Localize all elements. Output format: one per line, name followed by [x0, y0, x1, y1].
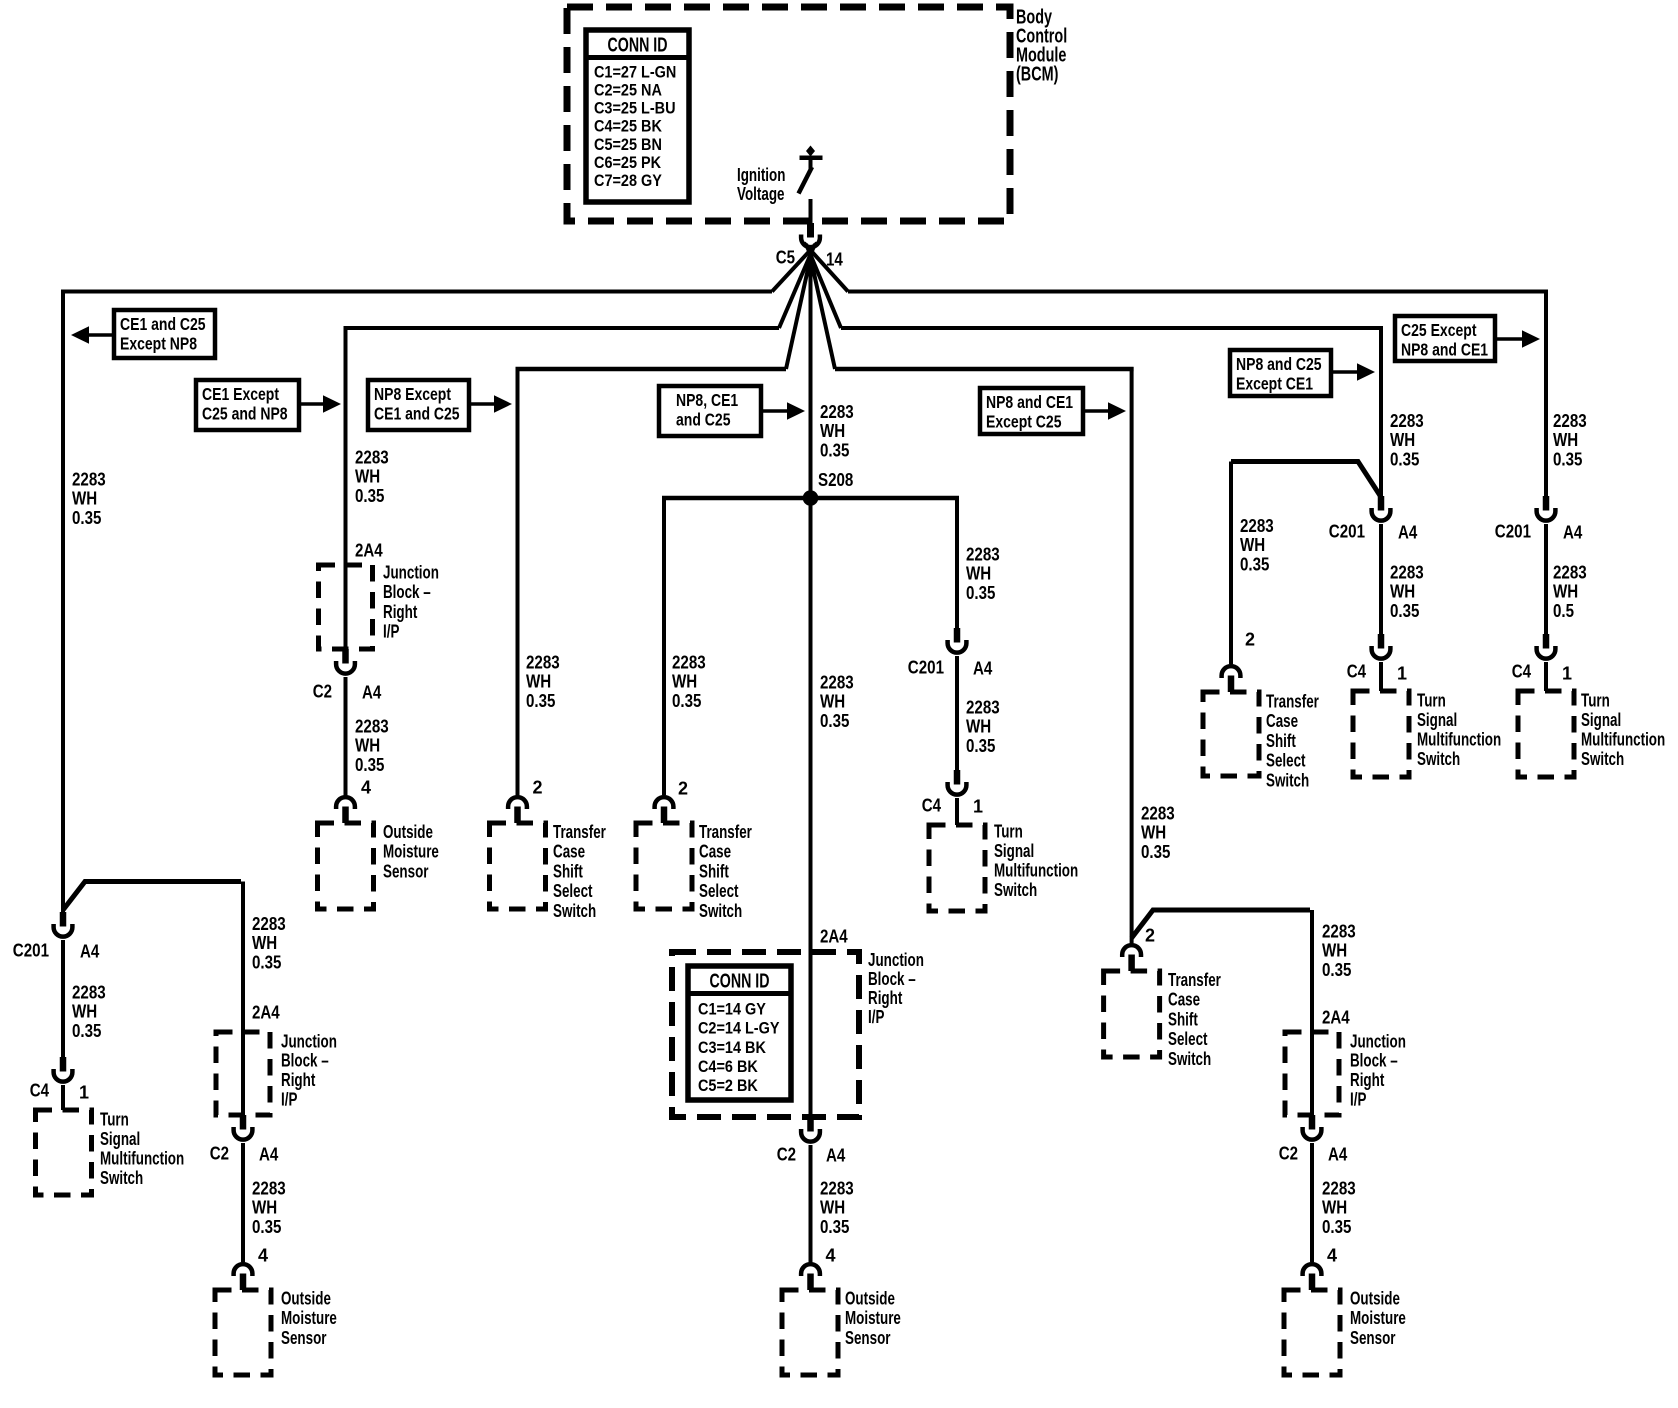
- svg-text:0.5: 0.5: [1553, 601, 1574, 621]
- svg-text:Transfer: Transfer: [553, 822, 606, 842]
- svg-text:WH: WH: [72, 1002, 97, 1022]
- svg-text:2283: 2283: [1322, 1178, 1356, 1198]
- svg-text:Turn: Turn: [994, 821, 1023, 841]
- wire ignition switch output: [809, 199, 813, 223]
- svg-text:C5: C5: [776, 247, 795, 267]
- wire rail 3 right: [835, 367, 1134, 372]
- svg-text:C7=28 GY: C7=28 GY: [594, 171, 662, 190]
- arrow for flag CE1 and C25 Except NP8: [85, 333, 114, 337]
- svg-text:WH: WH: [1240, 535, 1265, 555]
- svg-text:A4: A4: [80, 941, 99, 961]
- flag CE1 and C25 Except NP8: [114, 310, 215, 358]
- svg-text:CONN ID: CONN ID: [710, 971, 770, 993]
- svg-text:NP8 and CE1: NP8 and CE1: [1401, 340, 1488, 360]
- wire rail 1 left: [61, 290, 772, 294]
- svg-text:Multifunction: Multifunction: [994, 861, 1078, 881]
- wire branch H C201 to C4: [1544, 524, 1548, 634]
- svg-text:Block –: Block –: [281, 1051, 329, 1071]
- svg-text:C4=6 BK: C4=6 BK: [698, 1057, 758, 1076]
- svg-text:C2: C2: [313, 681, 332, 701]
- svg-text:Moisture: Moisture: [281, 1308, 337, 1328]
- svg-text:Turn: Turn: [1581, 690, 1610, 710]
- svg-text:Multifunction: Multifunction: [1581, 730, 1665, 750]
- svg-text:and C25: and C25: [676, 410, 731, 430]
- svg-text:I/P: I/P: [281, 1090, 297, 1110]
- connector pin 4 at outside moisture sensor (second left): [234, 1264, 253, 1276]
- svg-text:Right: Right: [383, 602, 417, 622]
- svg-text:0.35: 0.35: [252, 1217, 281, 1237]
- svg-text:2283: 2283: [252, 914, 286, 934]
- svg-text:2A4: 2A4: [355, 540, 383, 560]
- transfer case shift select switch dashed box (branch F): [1104, 971, 1160, 1057]
- svg-text:4: 4: [258, 1245, 268, 1265]
- svg-text:C1=27 L-GN: C1=27 L-GN: [594, 62, 676, 81]
- arrow for flag CE1 Except C25 and NP8: [299, 402, 327, 406]
- svg-text:C2: C2: [777, 1144, 796, 1164]
- svg-text:Signal: Signal: [1581, 710, 1621, 730]
- CONN ID table (junction block): [688, 966, 791, 1100]
- svg-text:C4: C4: [1512, 661, 1531, 681]
- svg-text:0.35: 0.35: [820, 1217, 849, 1237]
- svg-text:I/P: I/P: [868, 1007, 884, 1027]
- wire center below C2: [809, 1145, 813, 1262]
- svg-text:2: 2: [678, 778, 688, 798]
- wire branch H C4 to switch: [1544, 662, 1548, 691]
- ignition switch: [800, 156, 823, 161]
- wire second-left column down: [241, 882, 245, 1116]
- svg-text:Shift: Shift: [553, 861, 583, 881]
- junction block - right I/P dashed box (branch B): [319, 565, 373, 649]
- flag C25 Except NP8 and CE1: [1395, 316, 1495, 361]
- svg-text:C2=14 L-GY: C2=14 L-GY: [698, 1019, 780, 1038]
- wire branch F to right column: [1132, 910, 1310, 938]
- svg-text:Right: Right: [281, 1070, 315, 1090]
- svg-text:0.35: 0.35: [1390, 450, 1419, 470]
- svg-text:Switch: Switch: [100, 1168, 143, 1188]
- svg-text:Case: Case: [1168, 990, 1200, 1010]
- svg-text:Multifunction: Multifunction: [100, 1149, 184, 1169]
- connector C4 pin 1 (mid right): [954, 770, 961, 785]
- connector C4 pin 1 (far left): [60, 1057, 67, 1072]
- svg-text:Junction: Junction: [868, 950, 924, 970]
- connector pin 4 at outside moisture sensor (branch B): [336, 797, 355, 809]
- svg-text:1: 1: [1562, 663, 1572, 683]
- arrow for flag NP8, CE1 and C25: [761, 409, 791, 413]
- svg-text:1: 1: [973, 796, 983, 816]
- outside moisture sensor dashed box (right): [1284, 1290, 1340, 1375]
- svg-text:WH: WH: [72, 489, 97, 509]
- svg-text:NP8 Except: NP8 Except: [374, 384, 451, 404]
- outside moisture sensor dashed box (second left): [215, 1290, 271, 1375]
- svg-text:WH: WH: [1390, 582, 1415, 602]
- svg-text:Switch: Switch: [699, 901, 742, 921]
- svg-text:2283: 2283: [820, 1178, 854, 1198]
- svg-text:0.35: 0.35: [526, 691, 555, 711]
- turn signal multifunction switch dashed box (far left): [36, 1110, 92, 1195]
- svg-text:Except CE1: Except CE1: [1236, 374, 1313, 394]
- svg-text:Select: Select: [1266, 751, 1306, 771]
- svg-text:14: 14: [826, 249, 843, 269]
- wire second-left C2 to sensor: [241, 1143, 245, 1262]
- svg-text:Right: Right: [868, 988, 902, 1008]
- svg-text:0.35: 0.35: [1390, 601, 1419, 621]
- flag NP8, CE1 and C25: [659, 386, 761, 436]
- connector pin 2 at transfer case switch (branch F): [1122, 945, 1141, 957]
- fan-out wires from C5 to rails: [772, 243, 817, 292]
- flag NP8 Except CE1 and C25: [368, 380, 469, 430]
- svg-text:Shift: Shift: [1266, 731, 1296, 751]
- svg-text:Sensor: Sensor: [383, 861, 429, 881]
- svg-text:C1=14 GY: C1=14 GY: [698, 1000, 766, 1019]
- BCM dashed outline box: [567, 7, 1010, 221]
- svg-text:Junction: Junction: [281, 1031, 337, 1051]
- svg-text:C25 Except: C25 Except: [1401, 320, 1477, 340]
- svg-text:2283: 2283: [966, 544, 1000, 564]
- wire branch C from rail 3: [516, 367, 520, 795]
- svg-text:0.35: 0.35: [820, 711, 849, 731]
- svg-text:2: 2: [533, 777, 543, 797]
- svg-text:2283: 2283: [1390, 411, 1424, 431]
- svg-text:0.35: 0.35: [252, 953, 281, 973]
- svg-text:CE1 and C25: CE1 and C25: [374, 404, 460, 424]
- connector C5 pin 14 at BCM: [807, 223, 814, 238]
- svg-text:WH: WH: [820, 421, 845, 441]
- svg-text:C2=25 NA: C2=25 NA: [594, 81, 662, 100]
- connector pin 2 at transfer case switch (branch D): [655, 797, 674, 809]
- svg-text:C2: C2: [1279, 1143, 1298, 1163]
- svg-text:Sensor: Sensor: [1350, 1328, 1396, 1348]
- turn signal multifunction switch dashed box (mid right): [929, 825, 985, 911]
- svg-text:2283: 2283: [355, 716, 389, 736]
- connector C2 pin A4 (branch B): [342, 649, 349, 664]
- svg-text:2283: 2283: [672, 652, 706, 672]
- flag CE1 Except C25 and NP8: [196, 380, 299, 430]
- connector pin 4 at outside moisture sensor (center): [801, 1264, 820, 1276]
- svg-text:Shift: Shift: [699, 861, 729, 881]
- svg-text:C201: C201: [13, 940, 49, 960]
- svg-text:0.35: 0.35: [1141, 842, 1170, 862]
- svg-text:2283: 2283: [820, 672, 854, 692]
- svg-text:A4: A4: [362, 682, 381, 702]
- outside moisture sensor dashed box (branch B): [318, 823, 374, 909]
- svg-text:Signal: Signal: [1417, 710, 1457, 730]
- svg-text:Turn: Turn: [100, 1109, 129, 1129]
- svg-text:WH: WH: [672, 672, 697, 692]
- svg-text:C4: C4: [30, 1080, 49, 1100]
- svg-text:WH: WH: [526, 672, 551, 692]
- svg-text:WH: WH: [966, 717, 991, 737]
- svg-text:Outside: Outside: [281, 1288, 331, 1308]
- svg-text:WH: WH: [1141, 823, 1166, 843]
- svg-text:CE1 and C25: CE1 and C25: [120, 314, 206, 334]
- svg-text:Case: Case: [699, 842, 731, 862]
- arrow for flag NP8 and C25 Except CE1: [1331, 370, 1361, 374]
- svg-text:4: 4: [826, 1245, 836, 1265]
- wire mid right C201 to C4: [955, 656, 959, 770]
- arrow for flag NP8 Except CE1 and C25: [469, 402, 498, 406]
- connector pin 2 at transfer case switch (branch G2): [1222, 666, 1241, 678]
- svg-text:Transfer: Transfer: [1168, 970, 1221, 990]
- wire far-left C4 to switch: [61, 1085, 65, 1110]
- svg-text:Transfer: Transfer: [699, 822, 752, 842]
- svg-text:0.35: 0.35: [72, 1021, 101, 1041]
- svg-text:A4: A4: [826, 1145, 845, 1165]
- svg-text:2283: 2283: [1141, 803, 1175, 823]
- svg-text:WH: WH: [820, 692, 845, 712]
- arrow for flag C25 Except NP8 and CE1: [1495, 337, 1526, 341]
- svg-text:Select: Select: [1168, 1029, 1208, 1049]
- svg-text:Signal: Signal: [100, 1129, 140, 1149]
- wire mid right C4 to switch: [955, 798, 959, 825]
- flag NP8 and C25 Except CE1: [1230, 350, 1331, 396]
- svg-text:Outside: Outside: [383, 822, 433, 842]
- connector C2 pin A4 (right): [1309, 1115, 1316, 1130]
- svg-text:0.35: 0.35: [672, 691, 701, 711]
- svg-text:Switch: Switch: [1168, 1049, 1211, 1069]
- svg-text:Sensor: Sensor: [845, 1328, 891, 1348]
- svg-text:Junction: Junction: [1350, 1031, 1406, 1051]
- svg-text:Case: Case: [553, 842, 585, 862]
- svg-text:2283: 2283: [966, 697, 1000, 717]
- svg-text:C201: C201: [1329, 521, 1365, 541]
- connector pin 2 at transfer case switch (branch C): [508, 797, 527, 809]
- svg-text:2283: 2283: [820, 402, 854, 422]
- wire far-left branch from rail 1: [61, 290, 65, 913]
- wire right C2 to sensor: [1310, 1143, 1314, 1262]
- svg-text:0.35: 0.35: [1240, 555, 1269, 575]
- svg-text:0.35: 0.35: [966, 736, 995, 756]
- wire branch from S208 to C201 (mid right): [955, 496, 959, 628]
- svg-text:C2: C2: [210, 1143, 229, 1163]
- svg-text:2A4: 2A4: [1322, 1007, 1350, 1027]
- svg-text:C201: C201: [1495, 521, 1531, 541]
- svg-text:0.35: 0.35: [1322, 1217, 1351, 1237]
- svg-text:C6=25 PK: C6=25 PK: [594, 153, 662, 172]
- svg-text:0.35: 0.35: [1553, 450, 1582, 470]
- svg-text:Junction: Junction: [383, 562, 439, 582]
- connector C4 pin 1 (branch G): [1378, 634, 1385, 649]
- svg-text:NP8 and C25: NP8 and C25: [1236, 354, 1322, 374]
- wire branch F from rail 3: [1130, 367, 1134, 943]
- connector C2 pin A4 (second left): [240, 1115, 247, 1130]
- svg-text:0.35: 0.35: [1322, 960, 1351, 980]
- junction block - right I/P dashed box (center): [672, 952, 859, 1117]
- wire branch to junction block column: [63, 882, 241, 911]
- wire rail 1 right: [848, 290, 1548, 294]
- svg-text:Switch: Switch: [994, 880, 1037, 900]
- wire right junction block column down: [1310, 910, 1314, 1115]
- svg-text:1: 1: [79, 1082, 89, 1102]
- wire rail 3 left: [516, 367, 787, 372]
- svg-text:C201: C201: [908, 657, 944, 677]
- wire branch G2 horizontal: [1231, 462, 1381, 498]
- svg-text:2283: 2283: [1553, 562, 1587, 582]
- svg-text:WH: WH: [1322, 1198, 1347, 1218]
- svg-text:0.35: 0.35: [355, 755, 384, 775]
- svg-text:2283: 2283: [72, 982, 106, 1002]
- svg-text:Except NP8: Except NP8: [120, 334, 197, 354]
- wire branch G C4 to switch: [1379, 662, 1383, 691]
- svg-text:Voltage: Voltage: [737, 184, 785, 204]
- arrow for flag NP8 and CE1 Except C25: [1083, 409, 1112, 413]
- svg-text:I/P: I/P: [383, 622, 399, 642]
- svg-text:Moisture: Moisture: [845, 1308, 901, 1328]
- svg-text:1: 1: [1397, 663, 1407, 683]
- svg-text:2283: 2283: [1240, 516, 1274, 536]
- svg-text:Ignition: Ignition: [737, 165, 785, 185]
- svg-text:Select: Select: [553, 881, 593, 901]
- junction block - right I/P dashed box (right): [1285, 1032, 1339, 1115]
- svg-text:Block –: Block –: [1350, 1051, 1398, 1071]
- svg-text:C3=14 BK: C3=14 BK: [698, 1038, 767, 1057]
- svg-text:Turn: Turn: [1417, 690, 1446, 710]
- svg-text:A4: A4: [1398, 522, 1417, 542]
- svg-text:A4: A4: [973, 658, 992, 678]
- svg-text:A4: A4: [1563, 522, 1582, 542]
- svg-text:WH: WH: [355, 736, 380, 756]
- wire S208 branch left: [662, 496, 810, 501]
- svg-text:Moisture: Moisture: [383, 842, 439, 862]
- svg-text:4: 4: [1327, 1245, 1337, 1265]
- svg-text:Shift: Shift: [1168, 1009, 1198, 1029]
- svg-text:2: 2: [1245, 629, 1255, 649]
- svg-text:2283: 2283: [252, 1178, 286, 1198]
- svg-text:2283: 2283: [1553, 411, 1587, 431]
- svg-text:Switch: Switch: [1266, 771, 1309, 791]
- wire branch G C201 to C4: [1379, 524, 1383, 634]
- svg-text:0.35: 0.35: [72, 508, 101, 528]
- wire rail 2 right: [841, 326, 1383, 330]
- svg-text:Block –: Block –: [383, 582, 431, 602]
- transfer case shift select switch dashed box (branch D): [636, 823, 692, 909]
- wire branch G2 down to transfer case switch: [1229, 462, 1233, 665]
- svg-text:CE1 Except: CE1 Except: [202, 384, 279, 404]
- junction block - right I/P dashed box (second left): [216, 1032, 270, 1115]
- svg-text:C4=25 BK: C4=25 BK: [594, 117, 663, 136]
- svg-text:2283: 2283: [355, 447, 389, 467]
- svg-text:2283: 2283: [1322, 921, 1356, 941]
- svg-text:Outside: Outside: [1350, 1288, 1400, 1308]
- svg-text:WH: WH: [252, 933, 277, 953]
- flag NP8 and CE1 Except C25: [980, 388, 1083, 434]
- svg-text:A4: A4: [259, 1144, 278, 1164]
- svg-text:2: 2: [1145, 925, 1155, 945]
- connector C201 pin A4 (far left): [60, 912, 67, 927]
- connector C201 pin A4 (branch G): [1378, 496, 1385, 511]
- svg-text:0.35: 0.35: [966, 583, 995, 603]
- svg-text:S208: S208: [818, 470, 853, 490]
- wire branch B from rail 2: [344, 326, 348, 649]
- wire branch G from rail 2: [1379, 326, 1383, 496]
- svg-text:Switch: Switch: [1417, 749, 1460, 769]
- svg-text:C25 and NP8: C25 and NP8: [202, 404, 288, 424]
- connector C2 pin A4 (center): [807, 1117, 814, 1132]
- svg-text:Case: Case: [1266, 711, 1298, 731]
- turn signal multifunction switch dashed box (branch H): [1518, 691, 1574, 777]
- svg-text:Switch: Switch: [1581, 749, 1624, 769]
- svg-text:C5=25 BN: C5=25 BN: [594, 135, 662, 154]
- svg-text:I/P: I/P: [1350, 1090, 1366, 1110]
- svg-text:Multifunction: Multifunction: [1417, 730, 1501, 750]
- svg-text:C3=25 L-BU: C3=25 L-BU: [594, 99, 676, 118]
- svg-text:(BCM): (BCM): [1016, 64, 1058, 86]
- svg-text:2283: 2283: [1390, 562, 1424, 582]
- svg-text:WH: WH: [252, 1198, 277, 1218]
- connector C201 pin A4 (mid right): [954, 628, 961, 643]
- svg-text:Switch: Switch: [553, 901, 596, 921]
- svg-text:4: 4: [361, 777, 371, 797]
- svg-text:Moisture: Moisture: [1350, 1308, 1406, 1328]
- svg-text:Except C25: Except C25: [986, 412, 1062, 432]
- wire branch H from rail 1: [1544, 290, 1548, 497]
- wire branch D from splice S208: [662, 496, 666, 795]
- svg-text:C4: C4: [1347, 661, 1366, 681]
- wire far-left C201 to C4: [61, 940, 65, 1057]
- transfer case shift select switch dashed box (branch C): [490, 823, 546, 909]
- svg-text:0.35: 0.35: [355, 486, 384, 506]
- svg-text:CONN ID: CONN ID: [608, 34, 668, 56]
- CONN ID table (BCM): [586, 30, 689, 202]
- outside moisture sensor dashed box (center): [782, 1290, 838, 1375]
- splice S208: [803, 490, 819, 506]
- svg-text:2A4: 2A4: [252, 1002, 280, 1022]
- svg-text:Transfer: Transfer: [1266, 691, 1319, 711]
- svg-text:Sensor: Sensor: [281, 1328, 327, 1348]
- svg-text:WH: WH: [1553, 582, 1578, 602]
- svg-text:NP8, CE1: NP8, CE1: [676, 390, 738, 410]
- connector pin 4 at outside moisture sensor (right): [1303, 1264, 1322, 1276]
- svg-text:WH: WH: [1390, 430, 1415, 450]
- wire center vertical from C5 to junction block: [809, 249, 813, 1118]
- svg-text:C5=2 BK: C5=2 BK: [698, 1076, 758, 1095]
- svg-text:WH: WH: [355, 467, 380, 487]
- svg-text:2A4: 2A4: [820, 926, 848, 946]
- svg-text:Block –: Block –: [868, 969, 916, 989]
- wire rail 2 left: [344, 326, 780, 330]
- svg-text:Outside: Outside: [845, 1288, 895, 1308]
- svg-text:Signal: Signal: [994, 841, 1034, 861]
- transfer case shift select switch dashed box (branch G2): [1203, 692, 1259, 776]
- svg-text:Right: Right: [1350, 1070, 1384, 1090]
- svg-text:A4: A4: [1328, 1144, 1347, 1164]
- wire S208 branch right: [811, 496, 959, 501]
- svg-text:2283: 2283: [72, 469, 106, 489]
- svg-text:2283: 2283: [526, 652, 560, 672]
- svg-text:WH: WH: [1322, 941, 1347, 961]
- svg-text:WH: WH: [820, 1198, 845, 1218]
- svg-text:C4: C4: [922, 795, 941, 815]
- svg-text:WH: WH: [966, 564, 991, 584]
- svg-text:Select: Select: [699, 881, 739, 901]
- connector C201 pin A4 (branch H): [1543, 496, 1550, 511]
- svg-text:NP8 and CE1: NP8 and CE1: [986, 392, 1073, 412]
- svg-text:WH: WH: [1553, 430, 1578, 450]
- wire branch B C2 to sensor: [344, 677, 348, 795]
- connector C4 pin 1 (branch H): [1543, 634, 1550, 649]
- turn signal multifunction switch dashed box (branch G): [1353, 691, 1409, 777]
- svg-text:0.35: 0.35: [820, 441, 849, 461]
